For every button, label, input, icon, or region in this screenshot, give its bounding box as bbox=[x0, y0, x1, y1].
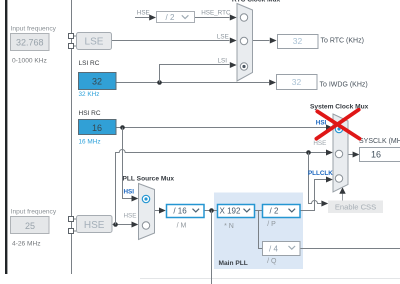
svg-text:Input frequency: Input frequency bbox=[11, 208, 57, 215]
svg-text:/ Q: / Q bbox=[267, 258, 277, 265]
svg-text:HSE_RTC: HSE_RTC bbox=[201, 9, 231, 16]
To IWDG value box bbox=[277, 75, 318, 90]
svg-text:* N: * N bbox=[224, 223, 234, 230]
svg-text:/ 2: / 2 bbox=[166, 13, 175, 22]
svg-text:HSE: HSE bbox=[313, 140, 326, 147]
PLL Source Mux body bbox=[139, 184, 155, 240]
svg-text:25: 25 bbox=[25, 221, 35, 231]
svg-text:16: 16 bbox=[92, 123, 102, 133]
wire HSE_RTC /2 divider to RTC mux bbox=[195, 15, 237, 21]
wire LSE to RTC mux bbox=[112, 38, 237, 44]
svg-text:X 192: X 192 bbox=[220, 207, 241, 216]
RTC mux radio LSI selected bbox=[240, 63, 247, 70]
RTC Clock Mux body bbox=[237, 4, 253, 82]
svg-text:32: 32 bbox=[293, 36, 303, 46]
svg-text:HSI RC: HSI RC bbox=[79, 110, 101, 117]
svg-text:To IWDG (KHz): To IWDG (KHz) bbox=[320, 81, 368, 88]
input frequency box LSE bbox=[11, 34, 50, 51]
svg-text:32 KHz: 32 KHz bbox=[79, 91, 100, 98]
wire CSS feed down to Enable CSS with hop bbox=[309, 153, 329, 207]
svg-text:HSE: HSE bbox=[124, 212, 137, 219]
svg-text:LSE: LSE bbox=[85, 37, 104, 48]
pin stub LSE top bbox=[74, 35, 77, 37]
junction HSI branch bbox=[120, 125, 125, 130]
svg-text:16 MHz: 16 MHz bbox=[79, 139, 101, 146]
/Q divider dropdown bbox=[263, 242, 301, 256]
PLL mux radio HSE bbox=[142, 222, 149, 229]
OSC32 pin square top bbox=[69, 34, 74, 39]
RTC mux radio LSE bbox=[240, 37, 247, 44]
system mux radio HSE bbox=[335, 150, 342, 157]
PLL mux radio HSI selected bbox=[142, 195, 149, 202]
svg-text:HSE: HSE bbox=[137, 9, 150, 16]
System Clock Mux body bbox=[333, 114, 348, 192]
pin stub HSE top bbox=[74, 218, 77, 220]
To RTC value box bbox=[278, 35, 319, 49]
svg-text:HSI: HSI bbox=[124, 189, 135, 196]
svg-text:Enable CSS: Enable CSS bbox=[335, 203, 376, 212]
wire HSE row to PLL source mux bbox=[112, 222, 138, 228]
/M divider dropdown bbox=[167, 205, 205, 218]
svg-text:32.768: 32.768 bbox=[16, 38, 44, 48]
wire *N to /P bbox=[255, 210, 263, 212]
svg-text:/ 4: / 4 bbox=[269, 244, 278, 253]
wire LSI to IWDG bbox=[116, 80, 276, 86]
wire PLL mux output bbox=[155, 208, 166, 214]
wire /M to *N bbox=[204, 210, 218, 212]
wire LSI branch to RTC mux bbox=[160, 62, 237, 83]
HSI RC block bbox=[79, 120, 117, 135]
wire RTC mux output bbox=[253, 38, 277, 44]
svg-text:HSE: HSE bbox=[84, 220, 105, 231]
wire branch to /Q bbox=[259, 211, 263, 249]
system mux radio PLLCLK bbox=[335, 175, 342, 182]
svg-text:HSI: HSI bbox=[316, 119, 327, 126]
svg-text:32: 32 bbox=[92, 77, 102, 87]
LSE source block bbox=[77, 33, 112, 50]
wire /P output to PLLCLK input bbox=[300, 177, 333, 211]
junction CSS feed bbox=[306, 150, 311, 155]
svg-text:LSI: LSI bbox=[218, 58, 228, 65]
bottom pane border bbox=[140, 278, 400, 280]
svg-text:LSI RC: LSI RC bbox=[79, 60, 100, 67]
junction LSI branch bbox=[157, 80, 162, 85]
pin stub HSE bottom bbox=[74, 230, 77, 232]
svg-text:/ M: / M bbox=[177, 222, 187, 229]
wire Enable CSS up to system mux bbox=[339, 187, 345, 200]
svg-text:PLLCLK: PLLCLK bbox=[308, 170, 333, 177]
OSC pin square bottom bbox=[69, 229, 74, 234]
wire HSE up and to system mux with hop bbox=[116, 150, 333, 225]
svg-text:4-26 MHz: 4-26 MHz bbox=[12, 241, 41, 248]
svg-text:PLL Source Mux: PLL Source Mux bbox=[123, 176, 175, 183]
svg-text:/ P: / P bbox=[267, 221, 276, 228]
OSC pin square top bbox=[69, 217, 74, 222]
*N multiplier dropdown bbox=[218, 205, 255, 218]
svg-text:To RTC (KHz): To RTC (KHz) bbox=[321, 37, 364, 44]
wire /Q output bbox=[300, 248, 400, 250]
svg-text:Main PLL: Main PLL bbox=[219, 260, 248, 267]
svg-text:SYSCLK (MHz): SYSCLK (MHz) bbox=[359, 138, 400, 145]
pin stub LSE bottom bbox=[74, 45, 77, 47]
svg-text:16: 16 bbox=[371, 150, 381, 160]
svg-text:0-1000 KHz: 0-1000 KHz bbox=[12, 58, 47, 65]
RTC mux radio HSE_RTC bbox=[240, 14, 247, 21]
Enable CSS button bbox=[328, 201, 383, 214]
input frequency box HSE bbox=[11, 217, 50, 234]
wire PLL feed down offscreen bbox=[211, 211, 213, 284]
svg-text:Input frequency: Input frequency bbox=[11, 25, 57, 32]
Main PLL highlight panel bbox=[214, 193, 303, 270]
wire HSE stub to /2 divider bbox=[135, 15, 156, 21]
wire HSI branch down to PLL source mux bbox=[123, 128, 139, 202]
junction HSE branch bbox=[113, 222, 118, 227]
wire HSI row to system mux bbox=[116, 125, 333, 131]
svg-text:LSE: LSE bbox=[217, 34, 229, 41]
system mux radio HSI selected bbox=[335, 125, 342, 132]
source rail bbox=[71, 0, 73, 274]
red X disabled marker bbox=[316, 110, 359, 139]
HSE source block bbox=[77, 216, 113, 233]
OSC32 pin square bottom bbox=[69, 44, 74, 49]
svg-text:RTC Clock Mux: RTC Clock Mux bbox=[232, 0, 281, 3]
left splitter bar bbox=[5, 0, 7, 274]
svg-text:/ 16: / 16 bbox=[173, 207, 187, 216]
junction PLL feed down bbox=[209, 208, 214, 213]
svg-text:32: 32 bbox=[292, 77, 302, 87]
svg-text:/ 2: / 2 bbox=[270, 207, 279, 216]
/P divider dropdown bbox=[263, 205, 301, 218]
SYSCLK value box bbox=[360, 148, 400, 162]
HSE_RTC /2 divider dropdown bbox=[157, 12, 195, 23]
LSI RC block bbox=[79, 73, 117, 90]
wire system mux output to SYSCLK bbox=[348, 152, 359, 158]
